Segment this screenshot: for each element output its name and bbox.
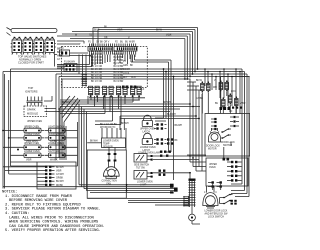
switch row 2b — [45, 136, 69, 141]
door lock motor caption — [206, 146, 220, 151]
gas valve switch SW-B — [22, 37, 34, 55]
svg-text:BK/R: BK/R — [57, 52, 63, 54]
wire drops below strip — [90, 55, 135, 67]
wire corner verticals right — [185, 28, 198, 80]
bottom bundle wires group A — [3, 185, 174, 193]
latch solenoid (padlock) lower — [142, 133, 152, 144]
svg-text:LOWER OVEN LAMP: LOWER OVEN LAMP — [138, 152, 161, 155]
relay bank K1 — [89, 86, 100, 97]
svg-text:DOOR SWITCH: DOOR SWITCH — [48, 134, 65, 136]
oven lamp L2 — [134, 171, 153, 180]
convection fan motor — [103, 162, 119, 179]
svg-text:BK GY OR: BK GY OR — [91, 51, 102, 53]
lower latch caption — [140, 147, 156, 152]
door lock inner pin column right — [230, 116, 239, 127]
connector P1 small — [64, 62, 77, 72]
connector above door lock box — [220, 107, 231, 110]
svg-text:BK: BK — [130, 65, 134, 67]
convection oven box — [87, 150, 126, 198]
spark module (dashed box) — [24, 106, 47, 117]
upper latch box — [221, 77, 250, 114]
svg-text:LIGHT SW: LIGHT SW — [48, 151, 60, 153]
svg-text:BK GY OR: BK GY OR — [91, 54, 102, 56]
lower oven rows outer box — [11, 122, 78, 166]
svg-text:LOWER OVEN: LOWER OVEN — [140, 147, 156, 149]
junction dot bottom — [126, 184, 128, 192]
oven lamp L1 — [134, 154, 153, 163]
svg-text:BK V GY OR BU: BK V GY OR BU — [100, 124, 117, 126]
latch solenoid (padlock) upper — [142, 115, 152, 126]
svg-text:CLN: CLN — [131, 77, 136, 79]
relay ladder hatch — [82, 74, 88, 87]
svg-text:TILT SW: TILT SW — [136, 168, 146, 170]
svg-text:GY: GY — [57, 59, 61, 61]
svg-text:LOWER OVEN: LOWER OVEN — [48, 143, 64, 145]
lower lock caption — [205, 211, 229, 219]
switch row 1a — [21, 128, 45, 133]
top ignitors label — [25, 86, 38, 94]
lamp L2 caption — [137, 182, 153, 187]
junction dot left — [2, 130, 19, 151]
svg-text:UPPER: UPPER — [209, 164, 217, 166]
svg-text:UPPER OVEN: UPPER OVEN — [24, 126, 39, 128]
svg-text:BK GY OR: BK GY OR — [91, 78, 102, 80]
junction dots corner — [184, 68, 198, 80]
switch SW-R5 — [222, 97, 226, 108]
upper latch caption — [140, 129, 155, 134]
wires valves to strip — [55, 41, 92, 67]
svg-text:CLOSED FOR START: CLOSED FOR START — [18, 61, 44, 65]
svg-text:BU W BR: BU W BR — [114, 51, 124, 53]
right cluster verticals — [205, 69, 240, 114]
svg-text:TEMP: TEMP — [103, 144, 110, 146]
switch row 4b — [45, 153, 69, 158]
bottom latch text row — [138, 152, 161, 155]
svg-text:BU W BR: BU W BR — [114, 81, 124, 83]
svg-text:BU: BU — [215, 103, 219, 105]
svg-text:DOOR LOCK: DOOR LOCK — [221, 142, 235, 144]
right cluster dot row — [228, 107, 242, 109]
connector strip P1/P2 — [88, 47, 137, 52]
bottom bundle wires group B — [87, 198, 188, 205]
wires to door lock — [153, 142, 231, 192]
bottom bundle terminals — [170, 184, 178, 194]
wires diagonal fan lower-left — [60, 96, 87, 191]
svg-text:BK: BK — [104, 95, 108, 97]
svg-text:LOCK: LOCK — [123, 73, 130, 75]
svg-text:LIGHT SWITCH: LIGHT SWITCH — [48, 126, 65, 128]
svg-text:BK: BK — [175, 140, 179, 142]
svg-text:UPPER OVEN: UPPER OVEN — [27, 121, 42, 123]
svg-text:UPPER OVEN: UPPER OVEN — [140, 129, 155, 131]
labels above strip — [88, 42, 135, 44]
svg-text:MODULE: MODULE — [27, 112, 38, 116]
svg-text:BK/W: BK/W — [156, 30, 163, 32]
connector below door lock box — [223, 158, 230, 161]
latch assembly box — [206, 158, 248, 186]
lower lock blob grid — [231, 200, 237, 205]
notice text block — [2, 191, 105, 234]
wire harness pill — [7, 28, 58, 36]
switch row 3b — [45, 145, 69, 150]
svg-text:WH: WH — [213, 87, 217, 89]
oven temp probe — [189, 179, 196, 221]
svg-text:UPPER OVEN: UPPER OVEN — [24, 143, 39, 145]
svg-text:BK GY OR: BK GY OR — [91, 63, 102, 65]
lamp2 blob group — [159, 170, 166, 176]
switch row 1b — [45, 128, 69, 133]
svg-text:LATCH: LATCH — [143, 149, 151, 152]
switch SW-R2 — [207, 81, 211, 92]
svg-text:MOTOR: MOTOR — [208, 149, 217, 151]
svg-text:BK/WH: BK/WH — [56, 167, 64, 169]
gas valve switch SW-A — [11, 37, 23, 55]
svg-text:BK/W: BK/W — [196, 80, 203, 82]
svg-text:V/BR: V/BR — [26, 160, 32, 162]
door lock wire bundle — [131, 55, 190, 181]
probe pins — [208, 181, 222, 187]
svg-text:TB: TB — [89, 35, 92, 37]
svg-text:LOWER OVEN: LOWER OVEN — [24, 151, 40, 153]
relay bottom bus — [89, 98, 145, 100]
control board bottom pins — [122, 86, 136, 89]
svg-text:LOWER DOOR LOCK: LOWER DOOR LOCK — [205, 211, 228, 213]
wires strip to P1 — [57, 55, 86, 75]
ignitor electrodes — [27, 97, 43, 106]
svg-text:BK/WH: BK/WH — [163, 102, 171, 104]
valve caption text — [18, 55, 47, 65]
svg-text:BK OR V: BK OR V — [100, 42, 110, 44]
relay bank K2 — [103, 86, 114, 97]
terminal bar connector — [183, 196, 189, 207]
svg-text:WH/BK: WH/BK — [50, 160, 58, 162]
wire bundle mid horizontal — [3, 69, 249, 79]
left box pin labels — [56, 167, 64, 187]
gas valve switch SW-D — [44, 37, 56, 55]
svg-text:BK: BK — [104, 27, 108, 29]
svg-text:LOCK SWITCH: LOCK SWITCH — [208, 217, 224, 219]
door lock motor upper — [209, 128, 221, 142]
svg-text:BU W BR: BU W BR — [125, 42, 135, 44]
svg-text:SENSOR: SENSOR — [103, 146, 113, 148]
switch SW-R3 — [219, 80, 223, 91]
wire bundle top horizontal — [57, 28, 198, 47]
svg-text:P10: P10 — [60, 48, 65, 50]
svg-text:LOWER OVEN: LOWER OVEN — [103, 141, 119, 143]
control board dashed outline — [62, 47, 148, 88]
svg-text:V/BR: V/BR — [240, 103, 246, 105]
sensor pins — [108, 148, 117, 162]
latch pin group right — [167, 125, 182, 145]
svg-text:V/BR: V/BR — [56, 170, 62, 172]
svg-text:LOWER OVEN: LOWER OVEN — [24, 134, 40, 136]
temp sensor box — [87, 138, 125, 148]
control board inner labels — [123, 61, 145, 91]
gas valve switch SW-C — [33, 37, 45, 55]
svg-text:BK/WH: BK/WH — [175, 125, 183, 127]
row captions — [24, 126, 65, 161]
svg-text:V/BR: V/BR — [117, 30, 123, 32]
svg-text:BK: BK — [57, 49, 61, 51]
svg-text:DOOR: DOOR — [123, 69, 130, 71]
svg-text:P1 BK/WH: P1 BK/WH — [64, 62, 75, 64]
convection caption — [102, 180, 118, 185]
switch row 2a — [21, 136, 45, 141]
wires control fanout — [58, 96, 200, 130]
door lock inner pins left — [211, 118, 217, 130]
left connector box — [37, 162, 76, 189]
svg-text:AND INTERLOCK SW: AND INTERLOCK SW — [205, 213, 229, 216]
sensor feed labels — [100, 124, 117, 129]
lower lock switches — [223, 194, 233, 205]
connector P10 — [60, 48, 70, 56]
svg-text:CONVECTION: CONVECTION — [102, 180, 118, 182]
switch row 3a — [21, 145, 45, 150]
svg-text:BK: BK — [90, 95, 94, 97]
switch SW-R7 — [235, 96, 239, 107]
wire labels BK/WH mid — [62, 102, 176, 125]
svg-text:GY/WH: GY/WH — [56, 174, 64, 176]
bottom latch blobs — [160, 151, 171, 157]
svg-text:BU W BR: BU W BR — [114, 54, 124, 56]
svg-text:BK GY OR: BK GY OR — [91, 57, 102, 59]
svg-text:WH BR RD TN: WH BR RD TN — [100, 127, 116, 129]
svg-text:BK GY OR: BK GY OR — [91, 72, 102, 74]
switch row 4a — [21, 153, 45, 158]
svg-text:BU: BU — [120, 42, 124, 44]
svg-text:BK GY OR: BK GY OR — [91, 81, 102, 83]
bottom right wires — [192, 184, 249, 224]
svg-text:RD: RD — [229, 111, 233, 113]
svg-text:OR/BK: OR/BK — [56, 178, 64, 180]
svg-text:BK GY OR: BK GY OR — [91, 75, 102, 77]
latch pin group upper — [154, 123, 167, 129]
switch SW-R1 — [201, 81, 205, 92]
connector pin ticks above — [90, 44, 136, 47]
svg-text:V/BR: V/BR — [166, 35, 172, 37]
svg-text:OR: OR — [104, 38, 108, 40]
wires into left box — [3, 162, 37, 174]
pin labels below strip — [91, 51, 124, 83]
svg-text:BK GY OR: BK GY OR — [91, 60, 102, 62]
door lock switch caption — [221, 142, 235, 147]
lower lock motor — [203, 193, 218, 208]
svg-text:SIDE SWITCH: SIDE SWITCH — [134, 165, 149, 167]
door lock box — [205, 114, 250, 157]
svg-text:OVEN: OVEN — [209, 167, 216, 169]
wire left verticals — [3, 69, 11, 189]
wire wrap right edge — [242, 69, 249, 197]
relay bottom labels — [90, 95, 136, 97]
wire label stack left of board — [57, 49, 63, 62]
wires feeds to sensor — [102, 128, 126, 150]
svg-text:LOC: LOC — [231, 91, 236, 93]
switch SW-R6 — [229, 93, 233, 104]
latch pin group lower — [154, 138, 167, 144]
wire labels top middle — [75, 27, 172, 44]
svg-text:5. VERIFY PROPER OPERATION AFT: 5. VERIFY PROPER OPERATION AFTER SERVICI… — [5, 229, 101, 233]
svg-text:W/BK: W/BK — [57, 56, 63, 58]
door lock switch pair — [221, 128, 231, 139]
svg-text:BK/WH: BK/WH — [121, 123, 129, 125]
spark module caption — [27, 121, 42, 123]
svg-text:RLY: RLY — [123, 77, 128, 79]
svg-text:IGNITORS: IGNITORS — [25, 90, 38, 94]
svg-text:TOP: TOP — [28, 86, 34, 90]
wire drops to spark module — [44, 74, 62, 160]
svg-text:BK GY OR: BK GY OR — [91, 69, 102, 71]
svg-text:SPARK: SPARK — [27, 108, 36, 112]
relay bank K4 — [131, 86, 142, 97]
svg-text:DOOR LOCK: DOOR LOCK — [206, 146, 220, 148]
row wires to left bus — [3, 131, 78, 156]
right cluster junctions — [204, 68, 241, 77]
door lock bundle dots — [163, 68, 200, 174]
connector pin ticks below — [90, 51, 136, 55]
svg-text:BK GY OR: BK GY OR — [91, 66, 102, 68]
svg-text:BU W BR: BU W BR — [114, 57, 124, 59]
right cluster lower wires — [187, 79, 236, 171]
svg-text:BK/R: BK/R — [94, 30, 100, 32]
switch SW-R4 — [225, 80, 229, 91]
relay bank K3 — [117, 86, 128, 97]
svg-text:BU/WH: BU/WH — [56, 181, 64, 183]
svg-text:GRN: GRN — [123, 65, 128, 67]
svg-text:OR: OR — [132, 95, 136, 97]
lamp L1 caption — [134, 165, 149, 170]
svg-text:BK/WH: BK/WH — [90, 141, 98, 143]
svg-text:LOWER OVEN: LOWER OVEN — [137, 182, 153, 184]
right cluster labels — [196, 80, 246, 113]
